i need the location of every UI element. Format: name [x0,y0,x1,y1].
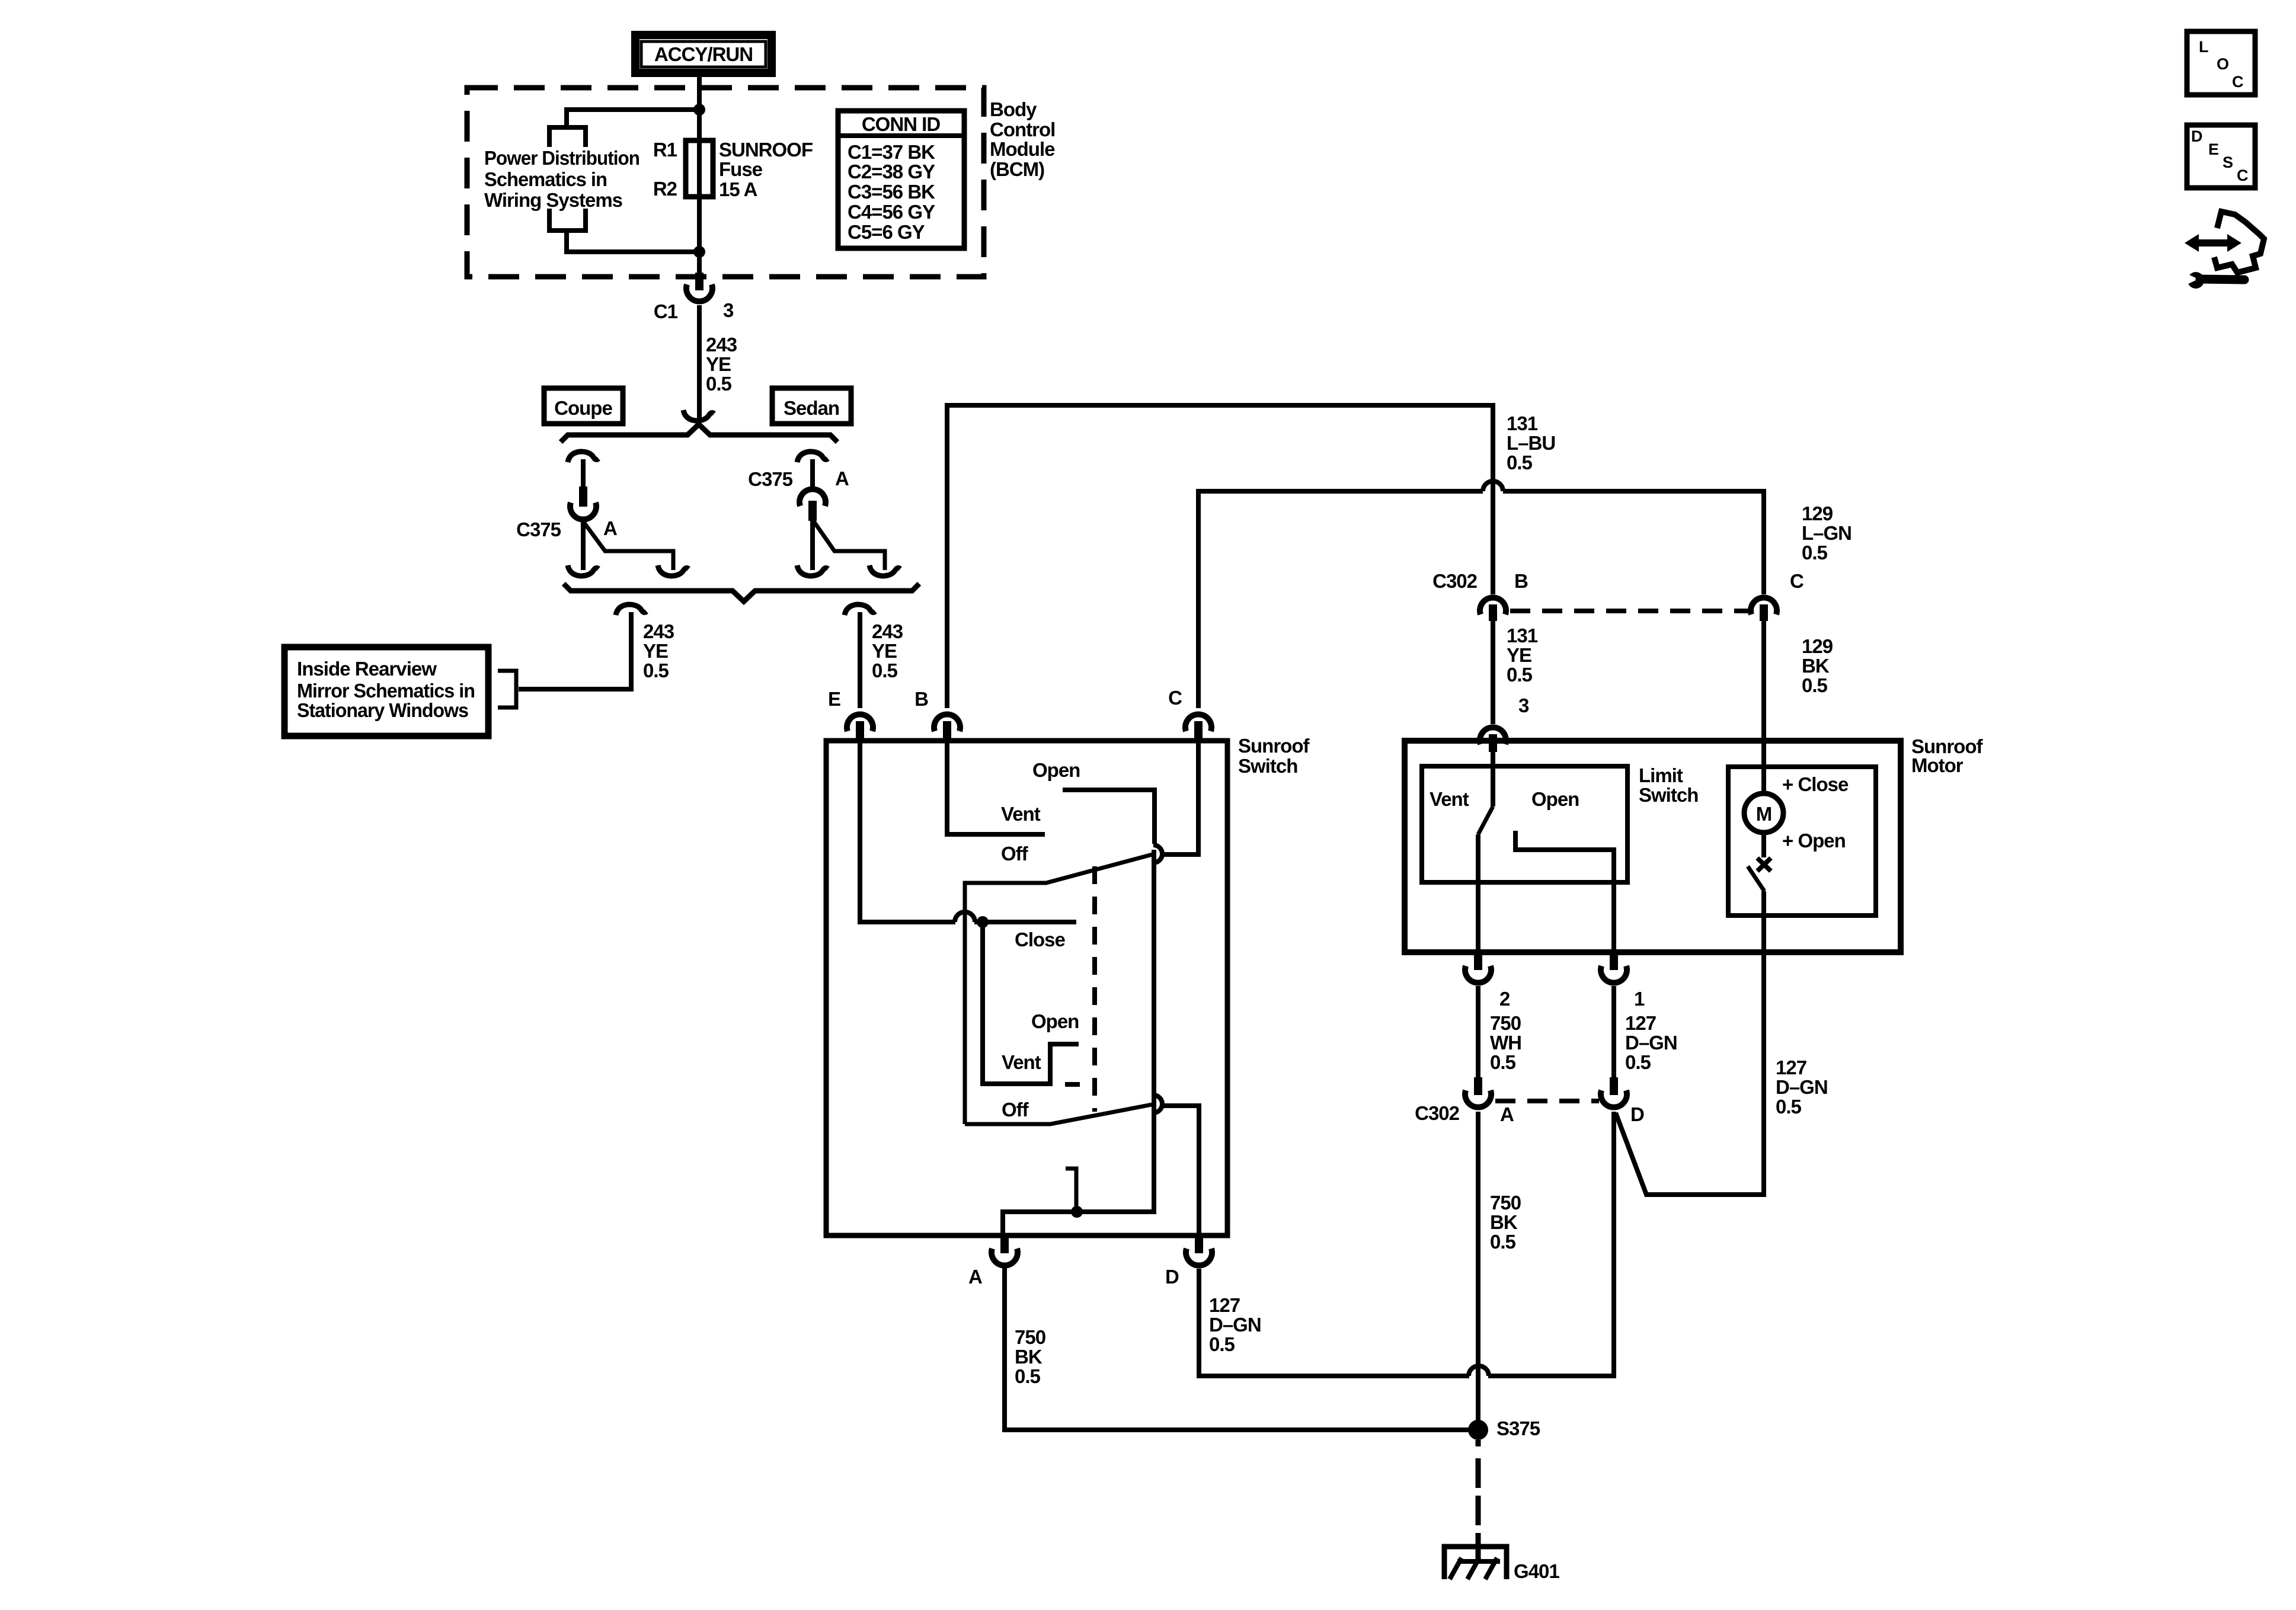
svg-text:C375: C375 [516,518,561,540]
contact Close stub (lower) [1066,1169,1076,1212]
svg-text:WH: WH [1490,1032,1521,1054]
node junction dot on E wire [977,916,989,928]
svg-text:Stationary Windows: Stationary Windows [297,699,468,721]
wire 243 YE left drop to mirror schematics [616,604,647,615]
svg-text:YE: YE [1507,644,1531,666]
motor sub box [1728,767,1876,916]
label box Coupe [544,388,623,424]
svg-text:0.5: 0.5 [1776,1096,1802,1118]
wire sedan C375 angled branch [813,520,885,570]
svg-text:Sedan: Sedan [784,397,839,419]
svg-text:O: O [2217,55,2229,73]
svg-text:Open: Open [1032,759,1080,781]
connector terminal 2 [1474,952,1482,970]
svg-text:B: B [914,688,928,710]
svg-text:Mirror Schematics in: Mirror Schematics in [297,680,475,702]
in-line connector hooks above bottom brace (sedan) [797,565,828,576]
connector C1 pin 3 [686,284,712,302]
dashed connector gang line C302 A-D [1495,1099,1599,1103]
svg-text:0.5: 0.5 [1490,1051,1516,1073]
wire 243 YE right drop to switch E [845,604,875,615]
wire 750 BK 0.5 from C302 A to S375 [1476,1112,1480,1430]
svg-text:Vent: Vent [1001,803,1041,825]
hop crossover of D wire over 750 BK wire [1469,1366,1489,1376]
svg-text:Coupe: Coupe [554,397,612,419]
svg-text:C3=56 BK: C3=56 BK [848,181,935,203]
svg-text:Module: Module [990,138,1055,160]
icon DESC box [2187,125,2255,188]
wire coupe C375 to bottom brace [581,521,586,570]
table CONN ID [838,111,964,248]
svg-text:0.5: 0.5 [1209,1333,1235,1355]
svg-text:BK: BK [1015,1346,1043,1368]
svg-text:A: A [835,468,849,489]
wire E inside switch to Close contact (upper) [860,741,955,922]
contact Open (limit switch) [1515,831,1614,954]
svg-text:D: D [1165,1266,1179,1288]
dashed connector gang line C302 B-C [1510,609,1750,613]
svg-text:131: 131 [1507,625,1538,646]
svg-text:15 A: 15 A [719,178,757,200]
wire pivot to D terminal [1160,1106,1199,1237]
svg-text:C: C [1168,687,1182,709]
svg-text:127: 127 [1776,1057,1806,1078]
svg-text:Vent: Vent [1430,788,1469,810]
node junction dot at fuse bottom [693,246,705,258]
dashed gang line between switch blades [1092,866,1097,1112]
svg-text:C302: C302 [1432,570,1478,592]
icon wrench [2188,272,2204,289]
svg-text:Close: Close [1015,929,1066,950]
svg-text:243: 243 [643,620,674,642]
wire sedan C375 to bottom brace [810,520,815,570]
wire 131 YE 0.5 from C302 B to limit switch pin 3 [1491,620,1495,724]
svg-text:0.5: 0.5 [1507,664,1533,686]
connector C302 pin A [1474,1077,1482,1095]
svg-text:243: 243 [872,620,903,642]
svg-text:0.5: 0.5 [1490,1231,1516,1253]
svg-text:Limit: Limit [1639,764,1683,786]
wire 243 YE 0.5 from C1 [697,305,702,420]
svg-text:E: E [2208,140,2219,158]
svg-text:127: 127 [1625,1012,1656,1034]
svg-text:E: E [828,688,840,710]
switch blade upper (off position) [965,854,1155,1124]
connector terminal C [1185,714,1211,731]
svg-text:127: 127 [1209,1294,1240,1316]
svg-text:C375: C375 [748,468,793,490]
svg-text:(BCM): (BCM) [990,158,1044,180]
in-line connector hooks above bottom brace (coupe) [568,565,599,576]
breaker x mark [1757,858,1771,871]
svg-text:A: A [603,517,617,539]
svg-text:Switch: Switch [1238,755,1297,777]
svg-text:R1: R1 [653,139,677,161]
off-page bracket (mirror box) [498,671,516,708]
svg-text:3: 3 [1518,694,1529,716]
svg-text:0.5: 0.5 [706,373,732,395]
component Limit Switch box [1422,766,1627,882]
svg-text:Control: Control [990,119,1055,140]
svg-text:C: C [1790,570,1803,592]
connector terminal E [847,714,873,731]
svg-text:BK: BK [1802,655,1830,677]
wire 750 WH 0.5 to C302 A [1476,986,1480,1081]
wire B inside switch to Vent contact [947,741,1045,834]
svg-text:C1=37 BK: C1=37 BK [848,141,935,163]
connector C302 pin C [1751,597,1777,614]
svg-text:C: C [2232,73,2244,91]
connector C375 sedan female cup [800,489,826,506]
wire sedan branch top [797,452,828,462]
connector C375 coupe female cup [570,502,596,520]
component Sunroof Motor box [1405,741,1901,952]
motor switch blade [1748,866,1764,891]
svg-text:Power Distribution: Power Distribution [484,147,639,169]
power symbol ACCY/RUN box [635,35,772,73]
svg-text:Open: Open [1531,788,1579,810]
svg-text:L–BU: L–BU [1507,432,1555,454]
motor M circle [1744,793,1783,833]
svg-text:D: D [1630,1103,1644,1125]
connector terminal A [1000,1235,1009,1253]
box Inside Rearview Mirror Schematics in Stationary Windows [284,647,488,736]
pivot arc upper [1153,845,1162,863]
icon double arrow [2185,234,2241,252]
svg-text:A: A [968,1266,982,1288]
module BCM dashed outline [467,88,984,277]
svg-text:2: 2 [1499,988,1510,1010]
hop crossover of E wire over blade feed [955,912,975,922]
svg-text:D–GN: D–GN [1776,1076,1828,1098]
svg-text:C: C [2237,167,2249,184]
wire coupe C375 angled branch [583,521,673,570]
svg-text:C5=6 GY: C5=6 GY [848,221,925,243]
svg-text:Body: Body [990,98,1037,120]
svg-text:ACCY/RUN: ACCY/RUN [654,43,753,65]
svg-text:YE: YE [872,640,897,662]
node junction dot at lower Close [1071,1206,1083,1218]
svg-text:0.5: 0.5 [1625,1051,1651,1073]
svg-text:M: M [1756,803,1772,825]
fuse SUNROOF 15A [686,140,713,197]
connector terminal B [934,714,960,731]
svg-text:131: 131 [1507,412,1538,434]
svg-text:CONN ID: CONN ID [862,113,941,135]
wire 750 BK 0.5 from switch A to S375 [1005,1268,1471,1430]
wire from junction to lower Open/Vent contacts [983,922,1079,1084]
svg-text:0.5: 0.5 [872,660,898,681]
svg-text:0.5: 0.5 [1802,542,1828,564]
svg-text:Wiring Systems: Wiring Systems [484,189,622,211]
wire motor output down and left to C302 D [1616,891,1764,1195]
component Sunroof Switch box [826,741,1227,1235]
node junction dot at fuse top feed [693,104,705,116]
connector C375 sedan male stub [808,501,817,521]
wire motor to thermal switch [1761,833,1766,857]
svg-text:A: A [1500,1103,1514,1125]
svg-text:BK: BK [1490,1211,1518,1233]
wire 129 BK 0.5 from C302 C to motor [1761,620,1766,795]
switch blade lower (off position) [965,1104,1155,1124]
connector C302 pin B [1480,597,1506,614]
svg-text:750: 750 [1490,1012,1521,1034]
connector C375 coupe male stub [579,486,587,507]
wire coupe branch top [568,452,599,462]
svg-text:YE: YE [643,640,668,662]
connector terminal D [1195,1235,1203,1253]
svg-text:Switch: Switch [1639,784,1698,806]
wire pin 3 into limit switch [1491,750,1495,806]
off-page bracket top (Power Distribution) [549,127,586,147]
icon LOC box [2187,31,2255,95]
svg-text:G401: G401 [1514,1560,1559,1582]
contact Open bar (upper) [1063,790,1155,844]
wire from ACCY/RUN down into BCM [697,75,702,252]
connector C302 pin D [1610,1077,1618,1095]
wire 127 D-GN 0.5 from switch D to C302 D [1199,1269,1469,1376]
svg-text:S: S [2223,153,2233,171]
svg-text:+ Close: + Close [1782,773,1849,795]
brace merge bottom [564,584,919,601]
svg-text:YE: YE [706,353,731,375]
svg-text:B: B [1514,570,1528,592]
wire vent contact down to terminal 2 [1476,834,1480,954]
svg-text:Inside Rearview: Inside Rearview [297,658,437,680]
wire 127 D-GN 0.5 to C302 D [1611,986,1616,1081]
wire common pivot rail down to Close contact (lower) [1003,850,1154,1237]
svg-text:Fuse: Fuse [719,158,763,180]
svg-text:0.5: 0.5 [1015,1365,1041,1387]
node splice S375 [1468,1420,1488,1440]
wire 129 L-GN from switch C to C302 C [1198,491,1483,708]
wire BCM output to connector C1 [697,252,702,289]
svg-text:Open: Open [1031,1010,1079,1032]
svg-text:C4=56 GY: C4=56 GY [848,201,935,223]
in-line connector hook at wire end [683,410,714,421]
limit switch blade (vent position) [1478,806,1493,834]
wire C inside switch to pivot [1160,741,1198,854]
svg-text:Sunroof: Sunroof [1238,735,1310,757]
svg-text:S375: S375 [1496,1417,1540,1439]
svg-text:Schematics in: Schematics in [484,168,607,190]
svg-text:129: 129 [1802,635,1833,657]
connector pin 3 at motor box [1480,727,1506,744]
svg-text:C2=38 GY: C2=38 GY [848,161,935,183]
svg-text:+ Open: + Open [1782,830,1846,852]
svg-text:L: L [2199,38,2209,56]
svg-text:Off: Off [1002,1099,1029,1121]
wire junction to power distribution reference [567,110,699,126]
svg-text:Vent: Vent [1002,1051,1041,1073]
icon jagged outline [2214,212,2264,273]
wire from power distribution bracket to fuse bottom [567,232,699,252]
hop crossover of 129 wire over 131 wire [1483,481,1503,491]
svg-text:D–GN: D–GN [1209,1314,1261,1336]
svg-text:750: 750 [1015,1326,1045,1348]
off-page bracket bottom (Power Distribution) [549,209,586,231]
svg-text:1: 1 [1634,988,1645,1010]
dashed ground wire to G401 [1476,1440,1481,1446]
svg-text:243: 243 [706,334,737,356]
brace split Coupe/Sedan top [561,424,837,442]
svg-text:3: 3 [723,299,734,321]
svg-text:0.5: 0.5 [643,660,669,681]
svg-text:R2: R2 [653,178,677,200]
svg-text:750: 750 [1490,1192,1521,1214]
svg-text:0.5: 0.5 [1507,452,1533,473]
contact Vent stub (lower) [1065,1082,1080,1087]
BODY: content groups appended below [284,35,1055,736]
connector terminal 1 [1610,952,1618,970]
ground G401 symbol [1444,1547,1507,1579]
wire 131 L-BU from switch B to C302 B [947,405,1493,708]
pivot arc lower [1153,1095,1162,1113]
svg-text:129: 129 [1802,502,1833,524]
svg-text:SUNROOF: SUNROOF [719,139,813,161]
svg-text:D–GN: D–GN [1625,1032,1677,1054]
svg-text:C302: C302 [1415,1102,1460,1124]
svg-text:D: D [2191,127,2203,145]
svg-text:Off: Off [1001,843,1029,865]
svg-text:C1: C1 [654,300,678,322]
svg-text:L–GN: L–GN [1802,522,1851,544]
svg-text:0.5: 0.5 [1802,674,1828,696]
label box Sedan [772,388,851,424]
svg-text:Motor: Motor [1911,754,1964,776]
